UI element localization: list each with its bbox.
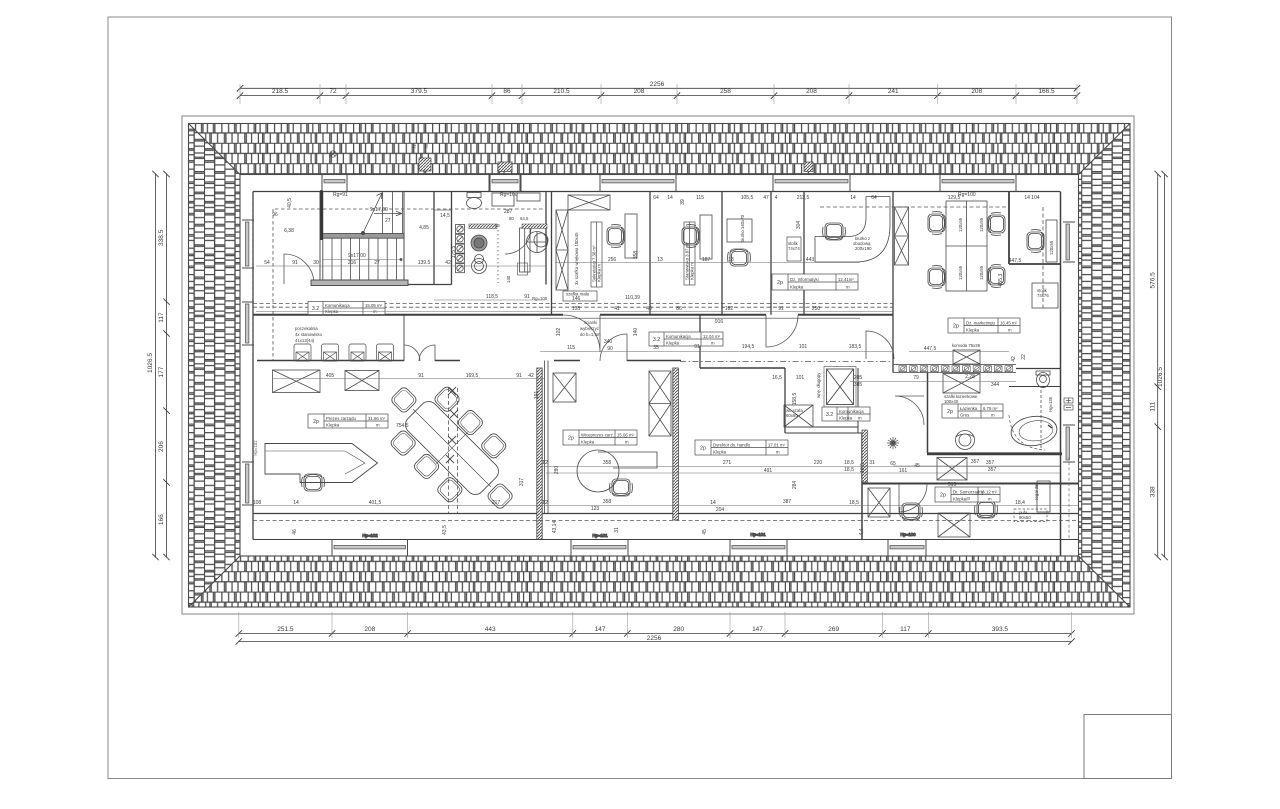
svg-text:1026.5: 1026.5 [1157,367,1164,387]
svg-text:91: 91 [516,373,522,379]
svg-text:13: 13 [728,257,734,263]
svg-text:16.12 m²: 16.12 m² [980,489,998,494]
chimney blocks in band [419,158,431,171]
wire corridor north wall seg3 [798,314,893,316]
top dimension chain [240,95,1077,97]
svg-text:m: m [858,416,862,421]
wiceprezes cabinets [553,371,671,436]
svg-text:358: 358 [603,460,612,466]
svg-text:208: 208 [806,88,817,95]
svg-text:17.01 m²: 17.01 m² [768,442,786,447]
wire wall stub [435,360,460,362]
svg-text:Rg=91: Rg=91 [333,192,348,198]
svg-text:256: 256 [608,257,617,263]
svg-text:ścianki: ścianki [584,320,597,325]
svg-text:Komunikacja: Komunikacja [325,303,350,308]
svg-text:45: 45 [702,529,708,535]
svg-text:60x60: 60x60 [786,413,798,418]
svg-text:102: 102 [556,328,562,337]
svg-text:14: 14 [710,500,716,506]
bottom dimension chain [236,612,1075,645]
svg-text:220: 220 [814,460,823,466]
door corridor 2 [766,315,798,347]
svg-text:210.5: 210.5 [553,88,570,95]
interior walls [253,175,1078,557]
wire poczekalnia south wall [257,360,404,362]
windows: right wall [1063,222,1075,462]
wire bath WC wall [1009,386,1060,388]
svg-text:2p: 2p [777,280,783,286]
svg-text:443: 443 [485,626,496,633]
interior dimension lines [253,263,1078,506]
svg-text:64: 64 [871,195,877,201]
svg-text:64: 64 [653,195,659,201]
fan circle quartered [527,232,548,253]
svg-text:31: 31 [869,460,875,466]
svg-text:455,3: 455,3 [998,274,1004,287]
wire window jamb [488,175,490,192]
checker tile bar 2 [522,224,547,229]
svg-text:146: 146 [572,296,581,302]
svg-text:280: 280 [673,626,684,633]
wire partition [721,192,723,315]
svg-text:Rg=100: Rg=100 [958,192,976,198]
svg-text:12.04 m²: 12.04 m² [703,334,721,339]
svg-text:158,5: 158,5 [792,393,798,406]
svg-text:317: 317 [519,478,525,487]
svg-text:2p: 2p [568,436,574,442]
svg-text:Komunikacja: Komunikacja [666,334,691,339]
svg-text:4,4: 4,4 [859,528,865,535]
wire bathroom south wall [927,452,1062,455]
wire east rooms west wall [861,433,863,540]
svg-text:6.79 m²: 6.79 m² [983,406,998,411]
svg-text:40: 40 [646,306,652,312]
tall cabinet X [556,210,568,290]
svg-text:2p: 2p [940,493,946,499]
door arcs [284,254,927,512]
reception curved desk [815,197,890,263]
washer drum dark [471,235,487,251]
left band [189,124,241,608]
wire stair hall south wall [408,284,452,286]
double door poczekalnia [404,345,435,361]
SE office tall cabinet [868,488,890,517]
svg-text:166: 166 [158,514,165,525]
windows: top wall [322,175,1016,192]
svg-text:9x17,00: 9x17,00 [370,207,388,213]
svg-text:120x55: 120x55 [958,217,963,232]
wire WC west wall a [433,192,435,285]
svg-text:35: 35 [653,345,659,351]
svg-text:129,5: 129,5 [948,195,961,201]
stair lower treads [332,238,396,280]
svg-text:Komunikacja: Komunikacja [839,409,864,414]
svg-text:117: 117 [900,626,911,633]
svg-text:250: 250 [812,306,821,312]
svg-text:m: m [776,450,780,455]
svg-text:2p: 2p [313,419,319,425]
svg-text:2,28: 2,28 [965,374,975,380]
svg-text:177: 177 [158,366,165,377]
svg-text:96: 96 [272,212,278,218]
wire poczekalnia east wall [403,315,405,361]
svg-text:379.5: 379.5 [411,88,428,95]
svg-text:Klepka: Klepka [581,440,595,445]
windows: bottom wall [332,532,926,556]
svg-text:poczekalnia: poczekalnia [295,326,318,331]
svg-text:Gres: Gres [960,413,969,418]
wire south rooms back wall [253,513,1078,515]
dotted vertical [497,230,499,283]
svg-text:Klepka: Klepka [839,416,853,421]
wire SE office north wall [862,483,1078,485]
svg-text:200x190: 200x190 [855,246,872,251]
svg-text:135: 135 [572,306,581,312]
svg-text:90x50: 90x50 [1019,515,1031,520]
svg-text:m: m [625,440,629,445]
staircase [311,190,408,286]
svg-text:Wiceprezes zarz.: Wiceprezes zarz. [581,432,614,437]
svg-text:65: 65 [890,461,896,467]
svg-text:m: m [711,341,715,346]
svg-text:Klepka: Klepka [666,341,680,346]
wire corridor south seg1 [554,360,580,362]
svg-text:m: m [991,413,995,418]
conference table rotated [368,364,536,532]
svg-text:241: 241 [888,88,899,95]
svg-text:118,5: 118,5 [486,294,498,300]
svg-text:447,5: 447,5 [924,346,937,352]
svg-text:m: m [988,497,992,502]
svg-text:Dz. marketingu: Dz. marketingu [966,320,996,325]
svg-text:15.06 m²: 15.06 m² [617,432,635,437]
svg-text:340: 340 [604,339,613,345]
svg-text:206: 206 [158,441,165,452]
svg-text:do b=1,5m: do b=1,5m [580,332,601,337]
svg-text:357: 357 [986,460,995,466]
svg-text:12: 12 [542,460,548,466]
svg-text:40,5: 40,5 [287,198,293,208]
prezes executive desk [265,444,378,483]
bottom overall dimension 2256 [239,641,1072,643]
svg-text:27: 27 [374,260,380,266]
svg-text:447,5: 447,5 [1009,258,1022,264]
svg-text:284: 284 [792,481,798,490]
svg-text:41: 41 [614,306,620,312]
svg-text:regał 36x: regał 36x [1034,481,1039,500]
svg-text:182: 182 [725,306,734,312]
poczekalnia chairs [294,344,394,361]
svg-text:443: 443 [806,257,815,263]
pufa dashed [1014,509,1047,522]
svg-text:269: 269 [828,626,839,633]
svg-text:576.5: 576.5 [1150,272,1157,289]
svg-text:120x55: 120x55 [979,217,984,232]
svg-text:14: 14 [667,195,673,201]
small door arc wc [505,228,531,254]
svg-text:115: 115 [696,195,704,201]
wall below stairs [311,280,408,286]
svg-text:401,5: 401,5 [369,500,382,506]
svg-text:187: 187 [702,257,711,263]
svg-text:123: 123 [591,506,600,512]
svg-text:biurko 140x70: biurko 140x70 [740,214,745,242]
corridor dashed guide lines [253,194,1078,521]
stair direction arrow [363,193,382,233]
svg-text:271: 271 [723,460,732,466]
left overall dimension 1026.5 [155,174,157,557]
svg-text:74x74: 74x74 [788,246,800,251]
room label box Komunikacja [822,407,870,421]
svg-text:30: 30 [313,260,319,266]
svg-text:22: 22 [1021,354,1027,360]
svg-text:385: 385 [854,382,863,388]
svg-text:18,5: 18,5 [849,500,859,506]
svg-text:204: 204 [716,507,725,513]
wire NE office west wall [1008,192,1010,265]
svg-text:338: 338 [1150,486,1157,497]
stair left bold wall [320,190,322,240]
desk room B [700,215,712,259]
svg-text:140: 140 [633,328,639,337]
svg-text:91: 91 [418,373,424,379]
svg-text:338.5: 338.5 [158,229,165,246]
svg-text:100x40: 100x40 [944,399,959,404]
svg-text:101: 101 [799,344,808,350]
svg-text:91: 91 [694,344,700,350]
svg-text:491: 491 [764,468,773,474]
svg-text:357: 357 [988,467,997,473]
svg-text:218.5: 218.5 [272,88,289,95]
svg-text:101: 101 [796,375,805,381]
svg-text:42: 42 [528,373,534,379]
dryer [475,255,484,264]
door mid right [866,331,894,359]
left dimension chain [147,171,170,560]
room label box Dz. Informatyki [772,274,858,290]
svg-text:Łazienka: Łazienka [960,406,978,411]
room label box Dr. Samorządny [935,487,1000,502]
wire marketing south wall east part [1016,368,1060,370]
svg-text:43,14: 43,14 [552,521,558,534]
desk sekretariat [625,214,637,258]
svg-text:91: 91 [524,294,530,300]
wire corridor north wall seg2 [600,314,766,316]
SE office desk X [938,513,970,537]
svg-text:208: 208 [364,626,375,633]
prezes X cabinets [273,370,380,393]
wire NE office south wall [1009,263,1060,265]
svg-text:217: 217 [492,500,501,506]
wire south window sill line [253,539,1078,541]
wire closet east wall [857,368,859,433]
svg-text:Klepka: Klepka [966,328,980,333]
room label box Prezes zarządu [308,414,388,428]
room label box Dyrektor ds. handlu [695,440,788,455]
svg-text:194,5: 194,5 [742,344,755,350]
svg-text:3.2: 3.2 [312,306,319,312]
svg-text:43,5: 43,5 [442,525,448,535]
svg-text:258: 258 [720,88,731,95]
door bathroom [895,396,924,425]
cabinet row squares [899,366,1013,372]
wire wiceprezes west wall b [547,361,549,514]
svg-text:18,5: 18,5 [860,463,866,473]
svg-text:251.5: 251.5 [277,626,294,633]
right band [1079,124,1131,608]
door stair hall [284,254,314,284]
mini box 146 [563,291,597,301]
wire partition [770,192,772,315]
svg-text:m: m [846,285,850,290]
wire west interior wall [252,192,254,540]
right service channel dashes [1068,457,1070,539]
svg-text:120x55: 120x55 [1049,240,1054,255]
wire corridor jog wall [699,315,701,368]
bathtub [1009,414,1058,448]
checker tile bar 1 [469,224,497,229]
cabinet [520,228,531,272]
dyrektor big X cabinet [824,367,856,408]
svg-text:213,5: 213,5 [797,195,810,201]
stair upper treads [383,192,403,234]
wire closet south wall a [785,426,858,428]
svg-text:45: 45 [914,463,920,469]
wire corridor north wall inner line [540,317,860,319]
svg-text:wnę. długopy: wnę. długopy [816,372,821,398]
svg-text:108: 108 [253,500,262,506]
svg-text:139.5: 139.5 [418,260,431,266]
svg-text:Hp=102: Hp=102 [253,440,258,456]
NE office desk [1046,220,1057,262]
svg-text:72: 72 [329,88,337,95]
door room south [600,334,627,361]
sekretariat wardrobe with X [556,195,752,290]
svg-text:280: 280 [554,466,560,475]
room label box Łazienka [942,404,1003,418]
page border [108,17,1172,779]
svg-text:Rg=100: Rg=100 [500,192,518,198]
wire east interior wall [1060,192,1062,557]
cabinet inner square [518,263,528,275]
toilet [467,198,482,209]
wire wiceprezes west wall a [544,361,546,514]
svg-text:14 104: 14 104 [1024,195,1040,201]
room label box Wiceprezes zarz. [563,430,637,445]
svg-text:91: 91 [292,260,298,266]
wire stairwell west [319,192,321,285]
svg-text:Klepka: Klepka [790,285,804,290]
WC / kitchen fixtures top [434,193,548,285]
svg-text:Hp=101: Hp=101 [592,533,608,538]
svg-text:3.2: 3.2 [826,412,833,418]
shower X box [937,458,967,481]
svg-text:358: 358 [633,251,639,260]
drawing frame [182,116,1134,614]
door corridor 1 [563,315,600,352]
vent symbols right gap [1064,398,1073,410]
svg-text:Klepka m: Klepka m [690,262,695,280]
svg-text:31.86 m²: 31.86 m² [368,416,386,421]
svg-text:Hp=101: Hp=101 [750,532,766,537]
windows: left wall [242,220,254,505]
wire partition [649,192,651,315]
svg-text:m: m [376,423,380,428]
desk room C [727,219,752,242]
marketing 4-desk cluster [946,201,987,291]
svg-text:304: 304 [796,221,802,230]
svg-text:Hp=102: Hp=102 [362,533,378,538]
svg-text:357: 357 [971,459,980,465]
svg-text:216: 216 [348,260,357,266]
svg-text:16,5: 16,5 [772,375,782,381]
svg-text:110,39: 110,39 [625,295,640,301]
svg-text:Klepka: Klepka [713,450,727,455]
svg-text:166.5: 166.5 [1038,88,1055,95]
svg-text:183,5: 183,5 [849,344,862,350]
wire stairwell east [403,192,405,285]
svg-text:18,5: 18,5 [844,460,854,466]
svg-text:72: 72 [412,144,417,149]
stair landing bar [323,234,404,239]
X marks column near conference [446,387,458,463]
bathroom cabinet X [943,374,980,394]
svg-text:393.5: 393.5 [992,626,1009,633]
svg-text:147: 147 [595,626,606,633]
svg-text:2256: 2256 [647,635,662,642]
svg-text:12: 12 [542,500,548,506]
boiler [534,233,548,247]
svg-text:2256: 2256 [650,81,665,88]
svg-text:41x13(44): 41x13(44) [295,338,315,343]
wire window jamb [520,175,522,192]
svg-text:46: 46 [292,529,298,535]
title block bottom right [1084,715,1172,779]
top overall dimension 2256 [237,81,1080,104]
svg-text:wybierzyć: wybierzyć [580,326,600,331]
svg-text:4x stanowisko: 4x stanowisko [295,332,323,337]
svg-text:15.05 m²: 15.05 m² [365,303,383,308]
room label box Komunikacja [308,302,385,315]
wire cabinet row bottom [893,372,1016,374]
svg-text:Dyrektor ds. handlu: Dyrektor ds. handlu [713,442,751,447]
svg-text:120x55: 120x55 [979,265,984,280]
svg-text:191: 191 [534,391,540,400]
shaft with X near x893 [895,207,909,265]
bottom band [189,556,1131,607]
svg-text:80: 80 [509,216,514,221]
svg-text:161: 161 [899,468,908,474]
svg-text:1026.5: 1026.5 [147,353,154,373]
svg-text:12.41m²: 12.41m² [838,277,854,282]
plant [887,437,899,449]
svg-text:6,38: 6,38 [284,228,294,234]
door east office [899,484,927,512]
room label box Dz. marketingu [948,318,1020,333]
wire cabinet row top [893,364,1016,366]
bathroom toilet small [1036,371,1050,388]
svg-text:76: 76 [424,144,429,149]
svg-text:4,85: 4,85 [419,225,429,231]
svg-text:Prezes zarządu: Prezes zarządu [326,416,356,421]
wire partition [803,192,805,315]
vertical room labels [591,222,695,287]
svg-text:Hp=100: Hp=100 [900,532,916,537]
svg-text:3.2: 3.2 [653,337,660,343]
svg-text:Klepka: Klepka [326,423,340,428]
svg-text:14,5: 14,5 [440,213,450,219]
